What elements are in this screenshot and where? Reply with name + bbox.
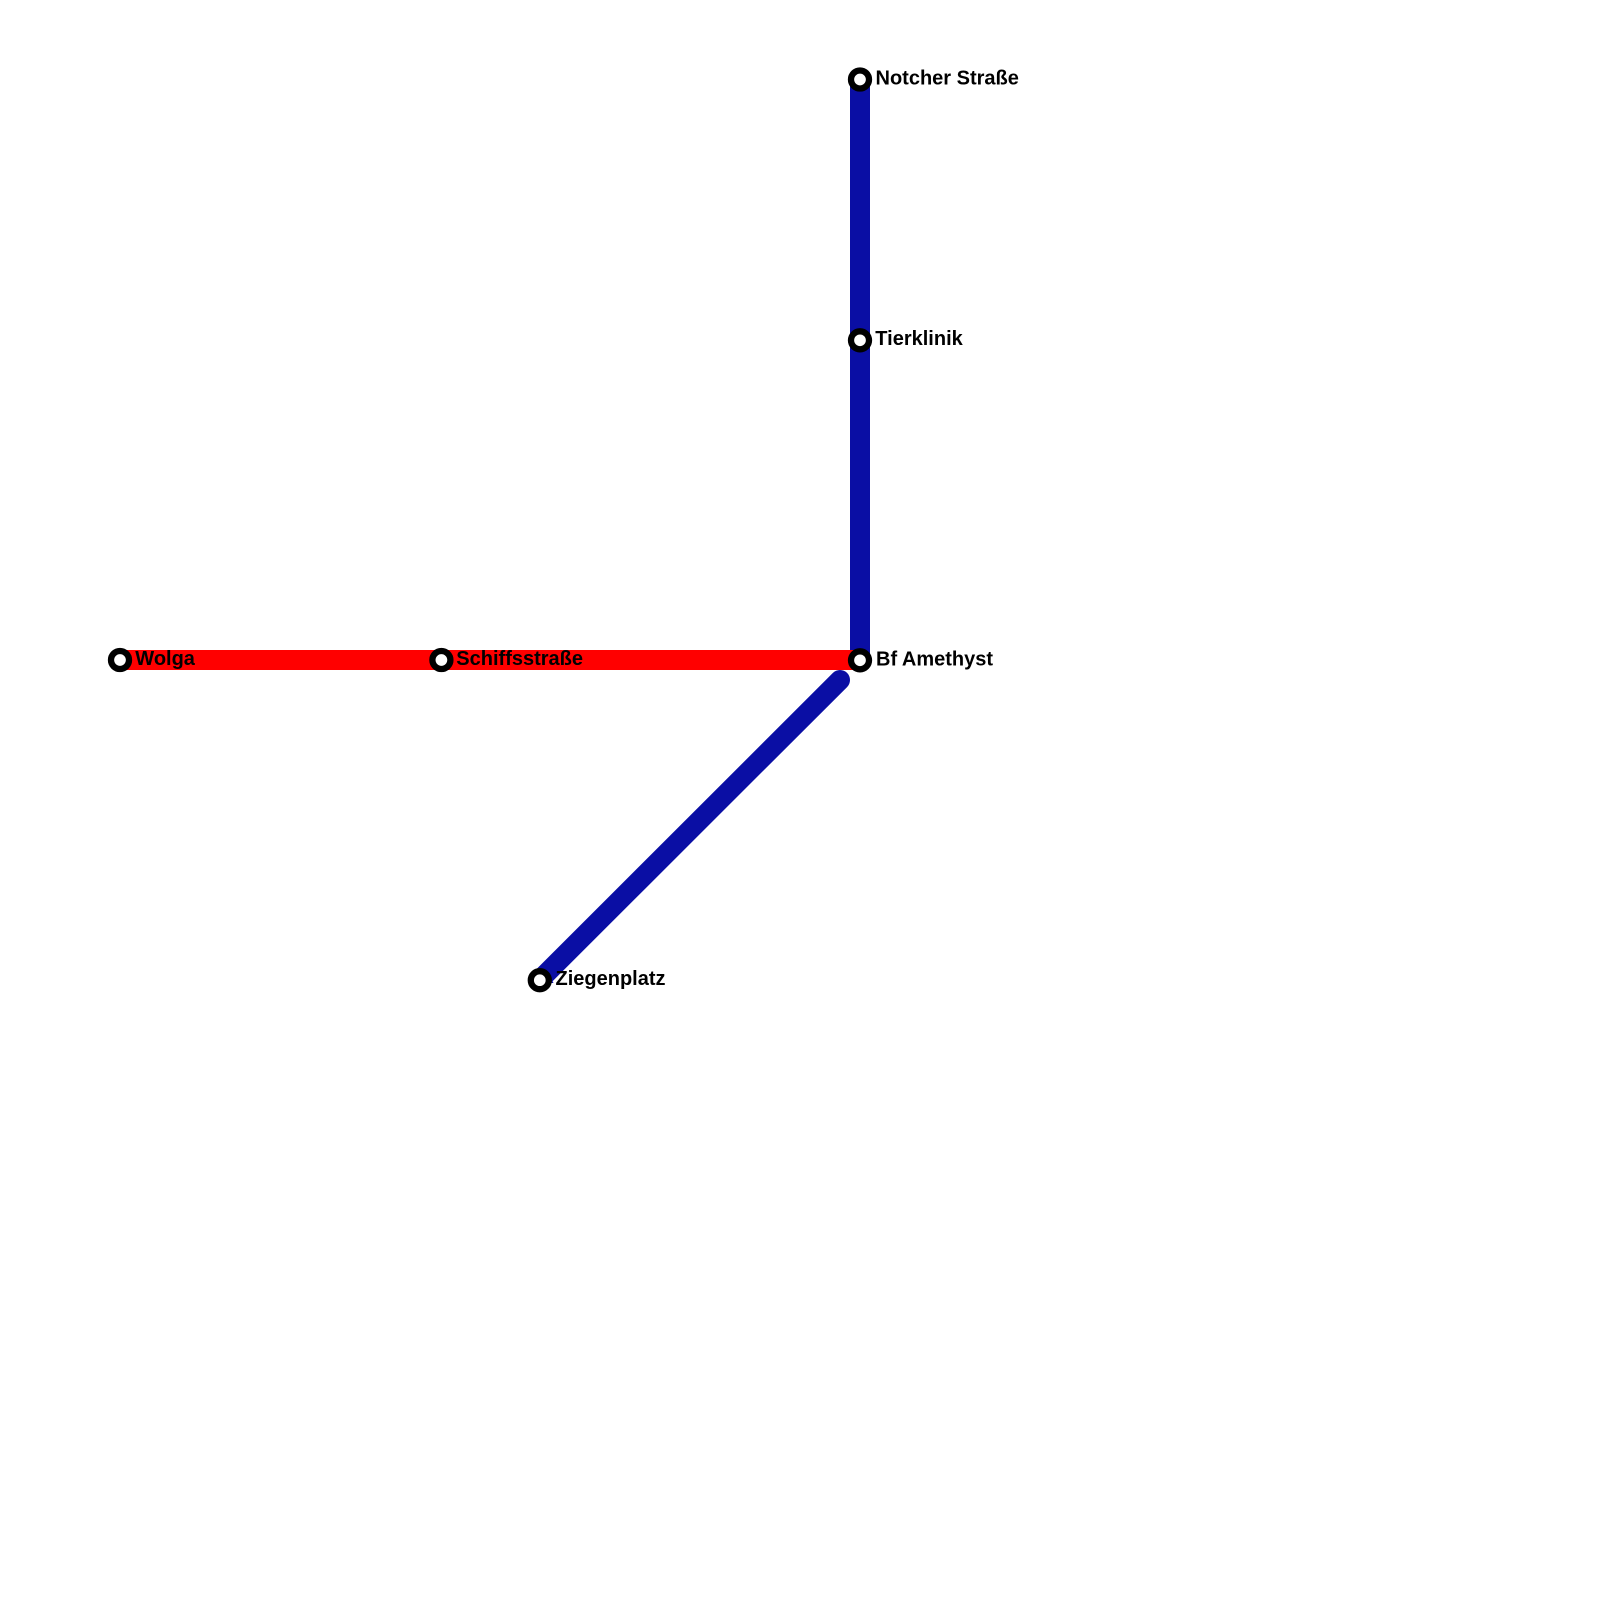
wire red line: Wolga to Schiffsstraße to Bf Amethyst (horizontal) xyxy=(120,650,860,670)
svg-text:Tierklinik: Tierklinik xyxy=(875,328,963,350)
wire blue line: Notcher Straße to Tierklinik to Bf Amethyst (vertical) xyxy=(850,80,870,661)
wire blue line: Bf Amethyst to Ziegenplatz (diagonal) xyxy=(540,680,841,980)
svg-text:Ziegenplatz: Ziegenplatz xyxy=(556,968,666,990)
svg-text:Notcher Straße: Notcher Straße xyxy=(876,68,1019,90)
node Wolga xyxy=(111,651,129,669)
svg-text:Wolga: Wolga xyxy=(135,648,196,670)
node Notcher Straße xyxy=(851,71,869,89)
node Bf Amethyst xyxy=(851,651,869,669)
node Tierklinik xyxy=(851,331,869,349)
svg-text:Bf Amethyst: Bf Amethyst xyxy=(876,648,993,670)
node Schiffsstraße xyxy=(432,651,450,669)
svg-text:Schiffsstraße: Schiffsstraße xyxy=(456,648,583,670)
node Ziegenplatz xyxy=(531,971,549,989)
wire blue tip at Ziegenplatz xyxy=(545,969,554,984)
